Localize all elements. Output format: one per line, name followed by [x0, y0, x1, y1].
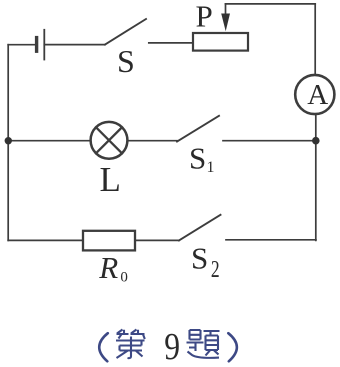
junction node left	[5, 137, 12, 144]
ammeter A body	[295, 75, 334, 114]
lamp L body	[91, 122, 128, 159]
switch S blade	[105, 19, 146, 45]
caption hanzi TI	[187, 330, 220, 358]
wire switch S to rheostat P	[149, 42, 193, 44]
wire top-left to battery	[8, 44, 35, 46]
caption close paren	[228, 333, 237, 361]
rheostat P slider arrow	[221, 14, 230, 32]
rheostat P body	[193, 33, 248, 51]
rheostat P slider stem wire	[225, 4, 227, 15]
svg-text:S: S	[191, 240, 208, 275]
switch S2 blade	[179, 215, 221, 241]
caption hanzi DI	[116, 330, 145, 359]
junction node right	[312, 137, 320, 145]
wire top to right corner	[226, 3, 316, 5]
wire left vertical	[7, 45, 9, 241]
svg-text:2: 2	[211, 255, 220, 282]
svg-text:0: 0	[120, 270, 128, 286]
wire switch S1 to right junction	[223, 140, 316, 142]
caption open paren	[99, 333, 108, 361]
svg-text:S: S	[117, 43, 135, 79]
battery positive plate (long)	[43, 30, 45, 60]
wire lamp to switch S1	[127, 140, 177, 142]
switch S1 blade	[177, 116, 219, 142]
wire bottom left	[8, 239, 83, 241]
svg-text:S: S	[189, 140, 206, 175]
svg-text:9: 9	[164, 325, 180, 367]
caption (第 9 题)	[99, 325, 237, 367]
wire R0 to switch S2	[135, 239, 179, 241]
wire right vertical to ammeter	[314, 4, 316, 74]
svg-text:A: A	[307, 79, 328, 111]
wire battery to switch S	[44, 44, 105, 46]
svg-text:P: P	[196, 0, 213, 34]
wire switch S2 to bottom right corner	[226, 239, 316, 241]
svg-text:1: 1	[207, 159, 215, 176]
svg-text:R: R	[98, 250, 118, 285]
wire ammeter to junction and bottom corner	[315, 115, 317, 240]
wire middle branch left	[8, 140, 90, 142]
battery negative plate (short)	[35, 38, 38, 52]
lamp L cross	[96, 127, 122, 153]
svg-text:L: L	[100, 160, 121, 199]
resistor R0 body	[83, 231, 135, 251]
